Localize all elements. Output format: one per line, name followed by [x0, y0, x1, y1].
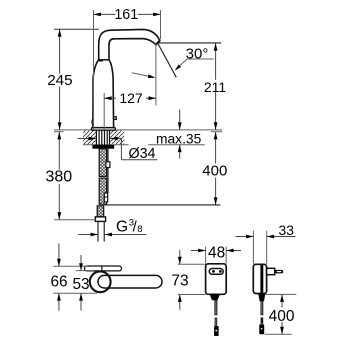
30 degree slant line — [158, 43, 177, 77]
side cable boot — [258, 294, 265, 302]
shank threads through deck — [96, 130, 109, 145]
svg-text:Ø34: Ø34 — [128, 146, 155, 162]
faucet spout tip face — [156, 41, 160, 45]
deck hatch left — [83, 130, 96, 144]
supply hose braided upper — [99, 149, 106, 177]
dim diameter 34 — [78, 138, 96, 140]
lever escutcheon circle — [90, 271, 111, 292]
svg-text:G: G — [116, 218, 128, 235]
svg-text:380: 380 — [45, 169, 72, 186]
svg-text:400: 400 — [202, 163, 227, 180]
svg-text:73: 73 — [171, 273, 188, 290]
tick 245 top — [54, 28, 99, 30]
side cable — [260, 301, 263, 315]
dim 400 right — [211, 131, 222, 133]
faucet base flange — [92, 128, 116, 131]
dim 400 bottom — [265, 293, 297, 295]
dim 66 — [53, 265, 88, 267]
plug prong — [275, 270, 284, 274]
front cable — [214, 300, 217, 315]
dim 127 — [103, 93, 105, 130]
dim max.35 — [179, 110, 181, 130]
30 degree second arrow — [132, 73, 149, 77]
supply hose braided lower — [99, 178, 106, 204]
faucet body and spout outline — [93, 29, 160, 127]
svg-text:211: 211 — [204, 79, 227, 95]
socket face pill — [209, 269, 223, 275]
G3/8 tube — [97, 222, 99, 242]
dim 48 — [205, 247, 207, 264]
dim 53 — [76, 270, 93, 272]
dim 33 — [252, 231, 254, 264]
sensor cable line — [107, 149, 109, 193]
svg-text:max.35: max.35 — [156, 131, 202, 146]
cable end plug — [104, 193, 107, 202]
faucet sensor window — [114, 117, 117, 120]
svg-text:245: 245 — [47, 72, 72, 89]
deck hatch right — [110, 130, 124, 144]
faucet spout joint line — [99, 59, 109, 61]
dim 161 — [93, 10, 95, 130]
svg-text:33: 33 — [279, 223, 295, 238]
side cable plug — [259, 324, 264, 334]
power adapter side body — [253, 264, 266, 293]
dim 380 — [54, 131, 64, 133]
svg-text:161: 161 — [114, 7, 138, 23]
lever top view pill — [85, 266, 122, 271]
hose threaded end — [97, 206, 104, 217]
svg-text:66: 66 — [50, 273, 67, 290]
svg-text:48: 48 — [208, 245, 225, 262]
cable connector — [106, 162, 110, 168]
svg-text:400: 400 — [269, 308, 295, 325]
hose hex nut — [95, 217, 105, 222]
side body stripe — [260, 265, 263, 293]
plug base — [267, 268, 275, 274]
dim 245 — [59, 29, 61, 73]
mounting nut — [92, 145, 114, 149]
svg-text:53: 53 — [72, 276, 89, 293]
dim 73 — [178, 263, 206, 265]
30 degree leader — [187, 58, 214, 60]
lever arm pill — [98, 275, 162, 288]
dim 211 — [159, 42, 222, 44]
deck bottom line — [83, 144, 128, 146]
front cable plug — [214, 326, 219, 336]
front cable boot — [210, 294, 220, 300]
deck top line — [54, 129, 222, 131]
svg-text:127: 127 — [119, 90, 143, 106]
dim G 3/8 — [78, 234, 98, 236]
svg-text:8: 8 — [137, 224, 142, 235]
power adapter front body — [206, 264, 227, 295]
socket holes — [212, 270, 215, 273]
svg-text:30°: 30° — [186, 46, 209, 63]
faucet left bump — [91, 119, 94, 125]
